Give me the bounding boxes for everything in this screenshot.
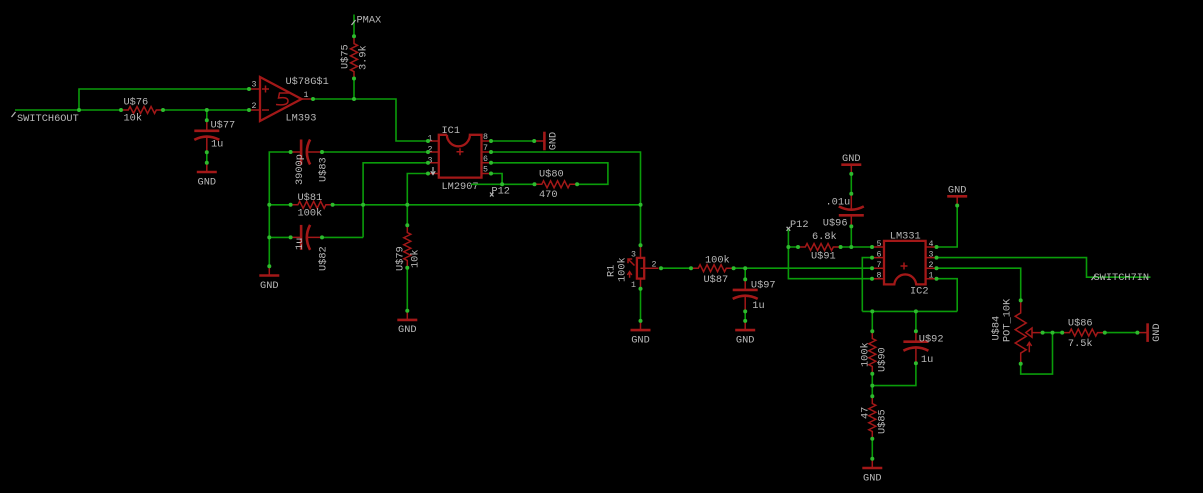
op-amp U$78G$1 LM393	[249, 76, 329, 125]
wire U$87 to LM331 pin7	[734, 267, 872, 269]
capacitor U$92 1u	[915, 311, 917, 331]
svg-text:1u: 1u	[921, 354, 933, 366]
svg-text:SWITCH7IN: SWITCH7IN	[1094, 272, 1150, 284]
svg-text:8: 8	[877, 272, 882, 281]
capacitor U$96 .01u	[850, 174, 852, 194]
svg-text:IC1: IC1	[442, 125, 461, 137]
svg-text:IC2: IC2	[910, 286, 929, 298]
ground under U$85	[862, 459, 882, 485]
wire U$80 row	[471, 183, 535, 185]
wire U$79 to ground	[406, 268, 408, 311]
svg-text:U$90: U$90	[877, 347, 889, 372]
svg-text:10k: 10k	[410, 249, 422, 268]
svg-text:100k: 100k	[617, 257, 629, 282]
wire LM393 output to IC1 pin1	[313, 99, 428, 141]
svg-text:3.9k: 3.9k	[358, 45, 370, 70]
wire U$75 to PMAX	[353, 15, 355, 37]
svg-text:U$91: U$91	[811, 250, 836, 262]
wire IC1 pin6 loop to U$80	[491, 163, 608, 185]
svg-text:47: 47	[860, 407, 872, 419]
wire U$86 to ground	[1105, 332, 1138, 334]
supply P12	[490, 186, 510, 198]
op-amp IC2 LM331	[872, 231, 937, 298]
svg-text:P12: P12	[491, 186, 510, 198]
svg-text:100k: 100k	[705, 255, 730, 267]
potentiometer U$84 POT_10K	[991, 298, 1041, 364]
wire ground to pin4	[937, 206, 958, 248]
ground rotated right	[1137, 323, 1163, 342]
svg-text:10k: 10k	[124, 112, 143, 124]
op-amp IC1 LM2907	[428, 125, 491, 193]
svg-text:1u: 1u	[752, 300, 764, 312]
svg-text:2: 2	[929, 261, 934, 270]
svg-text:LM393: LM393	[286, 113, 317, 125]
ground above U$96	[841, 153, 861, 174]
potentiometer R1 100k	[606, 245, 659, 290]
svg-text:100k: 100k	[860, 342, 872, 367]
svg-text:.01u: .01u	[826, 197, 851, 209]
svg-text:U$92: U$92	[919, 334, 944, 346]
svg-text:1: 1	[929, 272, 934, 281]
svg-text:1u: 1u	[294, 238, 306, 250]
svg-text:8: 8	[483, 133, 488, 142]
wire junction up to pin3 row	[79, 89, 249, 110]
node SWITCH7IN label	[1092, 272, 1150, 284]
svg-text:U$83: U$83	[318, 157, 330, 182]
svg-text:2: 2	[652, 261, 657, 270]
ground left rail	[259, 266, 279, 292]
svg-text:5: 5	[877, 240, 882, 249]
svg-text:3: 3	[252, 81, 257, 90]
wire pin2 to pot U$84	[937, 268, 1021, 300]
svg-text:LM2907: LM2907	[442, 181, 479, 193]
wire wiper row	[1041, 332, 1063, 334]
wire IC1 pin8 to ground	[491, 140, 534, 142]
svg-text:100k: 100k	[298, 208, 323, 220]
resistor U$81 100k	[291, 201, 334, 208]
resistor U$85 47	[869, 396, 876, 439]
svg-text:470: 470	[539, 189, 558, 201]
svg-text:U$96: U$96	[823, 218, 848, 230]
resistor U$91 6.8k	[788, 246, 872, 248]
svg-text:7.5k: 7.5k	[1068, 338, 1093, 350]
svg-text:P12: P12	[790, 219, 809, 231]
svg-text:U$87: U$87	[704, 274, 729, 286]
svg-text:1: 1	[304, 91, 309, 100]
wire U$76 to LM393 pin2	[163, 109, 249, 111]
wire pin6 down to bottom rail	[862, 258, 872, 312]
svg-text:1: 1	[631, 281, 636, 290]
svg-text:U$81: U$81	[298, 192, 323, 204]
svg-text:6: 6	[877, 251, 882, 260]
resistor U$75 3.9k	[351, 36, 358, 79]
resistor U$80 470	[535, 181, 578, 188]
wire pot bottom tie to wiper	[1021, 333, 1053, 375]
wire IC1 pin4 jog	[407, 174, 428, 226]
wire R1 pin2 to U$87	[661, 267, 691, 269]
wire U$85 to ground	[871, 439, 873, 459]
svg-text:U$97: U$97	[751, 280, 776, 292]
resistor U$86 7.5k	[1062, 329, 1105, 336]
resistor U$79 10k	[404, 225, 411, 268]
wire pin1 down to bottom rail	[937, 279, 958, 312]
svg-text:7: 7	[877, 261, 882, 270]
supply P12 rail at LM331	[787, 219, 809, 231]
svg-text:U$86: U$86	[1068, 317, 1093, 329]
svg-text:U$78G$1: U$78G$1	[286, 76, 329, 88]
wire U$83 to IC1 pin2	[322, 151, 428, 153]
wire SWITCH6OUT to U$76	[15, 109, 121, 111]
ground above LM331 pin4	[947, 185, 967, 206]
ground under R1	[631, 321, 651, 347]
svg-text:SWITCH6OUT: SWITCH6OUT	[17, 113, 79, 125]
node PMAX label	[352, 14, 382, 26]
capacitor U$97 1u	[744, 268, 746, 279]
svg-text:3: 3	[929, 251, 934, 260]
wire left rail	[269, 152, 290, 266]
ground rotated at IC1 pin8	[534, 132, 560, 151]
wire mid rail to IC1 pin3	[363, 163, 428, 238]
svg-text:LM331: LM331	[890, 231, 921, 243]
svg-text:5: 5	[483, 166, 488, 175]
wire bottom rail	[862, 310, 957, 312]
capacitor U$83 3900p	[291, 140, 323, 165]
ground under U$77	[197, 163, 217, 189]
svg-text:U$79: U$79	[395, 246, 407, 271]
resistor U$87 100k	[691, 265, 734, 272]
ground under U$97	[735, 321, 755, 347]
wire R1 bottom to ground	[640, 289, 642, 321]
svg-text:U$75: U$75	[340, 44, 352, 69]
wire IC1 pin5 jog down	[491, 174, 502, 185]
wire IC1 pin7 down to R1	[491, 152, 641, 245]
resistor U$76	[121, 107, 164, 114]
svg-text:3900p: 3900p	[294, 154, 306, 185]
wire U$82 row	[269, 236, 363, 238]
resistor U$90 100k	[871, 311, 873, 331]
svg-text:6: 6	[483, 155, 488, 164]
wire U$81 row	[269, 204, 640, 206]
svg-text:U$80: U$80	[539, 169, 564, 181]
wire U$92 bottom tie	[872, 363, 916, 385]
svg-text:4: 4	[929, 240, 934, 249]
svg-text:U$77: U$77	[211, 120, 236, 132]
svg-text:U$82: U$82	[318, 246, 330, 271]
wire pin3 to SWITCH7IN	[937, 258, 1151, 278]
svg-text:U$76: U$76	[124, 97, 149, 109]
svg-text:1u: 1u	[211, 139, 223, 151]
svg-text:2: 2	[252, 102, 257, 111]
svg-text:PMAX: PMAX	[357, 14, 382, 26]
capacitor U$77	[206, 110, 208, 120]
svg-text:U$85: U$85	[877, 409, 889, 434]
svg-text:3: 3	[631, 251, 636, 260]
svg-text:6.8k: 6.8k	[812, 231, 837, 243]
wire output junction up to U$75	[353, 79, 355, 100]
node SWITCH6OUT label	[12, 112, 79, 125]
svg-text:7: 7	[483, 144, 488, 153]
ground under U$79	[397, 311, 417, 337]
capacitor U$82 1u	[291, 225, 323, 250]
svg-text:POT_10K: POT_10K	[1002, 298, 1014, 342]
